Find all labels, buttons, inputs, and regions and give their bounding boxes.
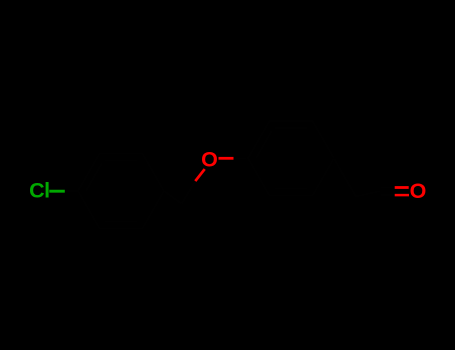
bond Cl-ringA black half xyxy=(65,190,79,192)
svg-text:O: O xyxy=(410,179,427,203)
svg-text:O: O xyxy=(201,147,218,171)
bond C=O aldehyde black halves xyxy=(381,186,395,188)
bond O-ringB black half xyxy=(234,157,249,159)
vinyl chain CH=CH (invisible) xyxy=(334,158,381,196)
svg-text:Cl: Cl xyxy=(29,179,49,203)
bond O-ringB red half xyxy=(219,157,234,160)
bond C=O aldehyde red halves (double bond) xyxy=(395,186,409,189)
benzene ring B (invisible black-on-black) xyxy=(248,121,334,196)
bond CH2-O red half xyxy=(195,169,204,181)
bond ringA-CH2 (invisible) xyxy=(164,191,182,204)
benzene ring A (4-chlorophenyl, invisible black-on-black) xyxy=(78,154,164,229)
bond CH2-O black half xyxy=(182,181,196,204)
bond Cl-ringA green half xyxy=(49,190,65,193)
